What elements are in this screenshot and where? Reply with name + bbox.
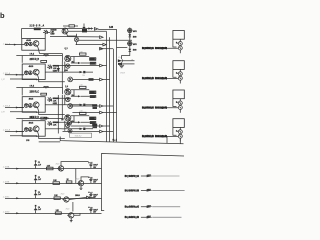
varistor RV2 [128, 41, 132, 45]
transistor Q14 [67, 213, 74, 218]
wire stage3 feed [64, 121, 66, 131]
svg-text:1K4: 1K4 [82, 75, 85, 77]
svg-text:1N4148-2: 1N4148-2 [75, 136, 82, 138]
junction circle J5 [68, 77, 73, 82]
diode D3b on block3 output [58, 104, 93, 106]
bus vertical 3 [113, 49, 115, 142]
relay unit 4 [163, 119, 184, 142]
junction circle J0 [74, 37, 78, 41]
wire to bus corner [98, 29, 116, 31]
ground rail 3 [16, 119, 62, 121]
capacitor C15 [88, 162, 92, 168]
wire emitter out [40, 53, 63, 55]
relay unit 3 [163, 90, 184, 113]
ground [119, 62, 124, 67]
svg-text:J_10SB: J_10SB [3, 181, 10, 183]
wire row3 [5, 198, 102, 200]
bus vertical 4 [116, 29, 118, 141]
svg-text:Q_6: Q_6 [65, 86, 68, 88]
diode CR1 [128, 34, 131, 37]
photodiode pair U1 [25, 42, 29, 46]
label blob stage3 out [92, 124, 97, 126]
wire block4 bottom to rail A [39, 141, 61, 143]
output row 4 [125, 216, 182, 219]
output row 3 [125, 206, 180, 209]
svg-text:B_GRV_B: B_GRV_B [125, 189, 139, 192]
svg-text:2N22: 2N22 [56, 163, 60, 165]
svg-text:B_GRV_D: B_GRV_D [125, 216, 139, 219]
opto-isolator block 3 [10, 93, 71, 114]
wire collector row2 [81, 177, 89, 181]
svg-text:2W: 2W [94, 59, 97, 61]
net rail B / IO box [102, 154, 185, 211]
transistor stage Q7 [65, 112, 97, 127]
diode D2b on block2 output [58, 71, 93, 73]
svg-text:1 R5: 1 R5 [26, 140, 29, 142]
wire collector row1 [61, 162, 89, 166]
wire ladder down [122, 54, 130, 60]
transistor Q11 [57, 166, 64, 171]
transistor Q12 [77, 181, 84, 186]
svg-text:.1uF: .1uF [38, 209, 41, 211]
wire row2 [5, 183, 102, 185]
resistor R11 [47, 167, 54, 170]
wire junction0 out [76, 44, 103, 46]
resistor R13 [66, 181, 72, 183]
label blob stage2 out [92, 104, 97, 107]
svg-text:B_GRV_C: B_GRV_C [125, 206, 139, 209]
transistor stage Q6 [65, 86, 97, 101]
stage1 output wires to bus [71, 65, 99, 67]
phototransistor Q1 [33, 41, 39, 47]
svg-text:b: b [0, 11, 5, 20]
svg-text:2N22: 2N22 [66, 209, 70, 211]
transistor Q13 [62, 197, 69, 202]
capacitor C3 [34, 190, 38, 198]
svg-text:B_SRV_C: B_SRV_C [142, 107, 154, 110]
diode pair on wire [68, 129, 72, 133]
svg-text:RG1@-R: RG1@-R [155, 47, 167, 50]
resistor R1 on rail [34, 28, 41, 30]
transistor stage Q5 [65, 53, 97, 68]
stage2 output wires to bus [71, 105, 99, 107]
dark component DR0 [82, 29, 87, 32]
svg-text:225-5 R_C: 225-5 R_C [30, 92, 40, 94]
output row 2 [125, 189, 185, 192]
svg-text:B_SRV_A: B_SRV_A [142, 47, 154, 50]
svg-text:225-5 P_A: 225-5 P_A [30, 24, 45, 27]
svg-text:2N22: 2N22 [76, 178, 80, 180]
diode CR10 [43, 30, 48, 34]
svg-text:914: 914 [72, 94, 75, 97]
relay unit 2 [163, 61, 184, 84]
resistor R15 [55, 212, 61, 214]
node arrow A2 [100, 36, 103, 39]
diode ladder stack [127, 28, 137, 54]
wire row1-row2 link [75, 169, 77, 184]
svg-text:J_10SD: J_10SD [3, 211, 10, 213]
wire stage2 feed [62, 95, 65, 119]
wire unit4 to rail [167, 136, 180, 143]
wire row3-row4 link [72, 202, 74, 212]
wire stage output y48.7 [99, 48, 113, 50]
svg-text:47 x: 47 x [118, 57, 121, 59]
bottom row 1 [3, 160, 102, 171]
svg-text:.1uF: .1uF [38, 194, 41, 196]
wire row4 [5, 213, 102, 215]
svg-text:C8: C8 [90, 207, 92, 209]
svg-text:4R1W: 4R1W [120, 72, 125, 74]
svg-text:.1uF: .1uF [38, 179, 41, 181]
wire top rail [22, 29, 94, 39]
resistor R14 [54, 197, 60, 200]
junction circle J6 [68, 104, 73, 109]
svg-text:1N914: 1N914 [75, 194, 80, 197]
wire blocks right bus [57, 95, 59, 134]
transistor stage Q0 [62, 25, 107, 46]
ground rail 2 [16, 88, 62, 95]
svg-text:225-5 R_D: 225-5 R_D [30, 117, 40, 119]
diode CR3 [118, 59, 122, 62]
wire LED drop [45, 32, 50, 38]
diode CR2 [128, 49, 131, 52]
node arrow A1 [94, 28, 97, 31]
bottom row 4 [3, 202, 102, 222]
junction circle J7 [67, 121, 71, 125]
capacitor C1 [34, 160, 38, 168]
capacitor C4 [34, 205, 38, 213]
resistor R0 [69, 25, 75, 27]
wire bus to unit1 [79, 39, 132, 41]
bus vertical 2 [109, 37, 111, 141]
wire stage1 feed [62, 62, 65, 88]
capacitor C17 [88, 192, 92, 198]
svg-text:C7: C7 [90, 192, 92, 194]
svg-text:2W: 2W [94, 92, 97, 94]
diode CR4 [118, 63, 122, 65]
svg-text:Q_7: Q_7 [61, 119, 64, 121]
svg-text:2N22: 2N22 [61, 194, 65, 196]
relay unit 1 [163, 31, 184, 54]
svg-text:2W: 2W [94, 118, 97, 120]
net rail A [60, 137, 183, 144]
wire row1 [5, 168, 102, 170]
svg-text:B_SRV_D: B_SRV_D [142, 135, 154, 138]
svg-text:RG1@-R: RG1@-R [155, 107, 167, 110]
stage3 output wires to bus [71, 125, 99, 127]
svg-text:J_10SC: J_10SC [3, 196, 10, 198]
svg-text:RG1@-R: RG1@-R [155, 135, 167, 138]
svg-text:0.5W: 0.5W [50, 34, 54, 36]
svg-text:C5: C5 [90, 163, 92, 165]
capacitor C0 on rail [83, 24, 86, 29]
svg-text:0.5W: 0.5W [53, 103, 57, 105]
svg-text:C6: C6 [90, 177, 92, 179]
ground rail 1 [16, 54, 62, 62]
opto-isolator block 1 [3, 29, 103, 62]
capacitor C2 [34, 175, 38, 183]
svg-text:.1uF: .1uF [38, 164, 41, 166]
svg-text:Q_5: Q_5 [65, 48, 68, 50]
label bars [142, 47, 154, 49]
zener VR2 [57, 66, 59, 73]
wire collector row4 [74, 213, 80, 215]
resistor R12 [53, 182, 60, 185]
svg-text:225-5 R_B: 225-5 R_B [30, 59, 40, 61]
component box DS1 [70, 133, 92, 137]
diode D4b on block4 output [58, 128, 93, 130]
capacitor C16 [88, 177, 92, 183]
svg-text:1N40: 1N40 [133, 36, 137, 39]
svg-text:B_GRV_A: B_GRV_A [125, 175, 139, 178]
diode CR5 [69, 196, 95, 199]
wire block1 lower output [50, 36, 99, 38]
bottom row 2 [3, 169, 102, 190]
svg-text:0.5W: 0.5W [53, 70, 57, 72]
opto-isolator block 2 [10, 61, 71, 82]
bottom row 3 [3, 190, 102, 202]
svg-text:B_SRV_B: B_SRV_B [142, 77, 154, 80]
varistor RV1 [128, 28, 132, 32]
wire bus branch to ladder [117, 47, 128, 49]
opto-isolator block 4 [10, 117, 71, 138]
svg-text:1N40: 1N40 [133, 49, 137, 52]
svg-text:RG1@-R: RG1@-R [155, 77, 167, 80]
diode D0 on rail [88, 27, 91, 29]
svg-text:914: 914 [72, 61, 75, 64]
bus vertical 1 [106, 32, 108, 142]
capacitor C18 [88, 207, 92, 213]
output row 1 [125, 175, 180, 178]
